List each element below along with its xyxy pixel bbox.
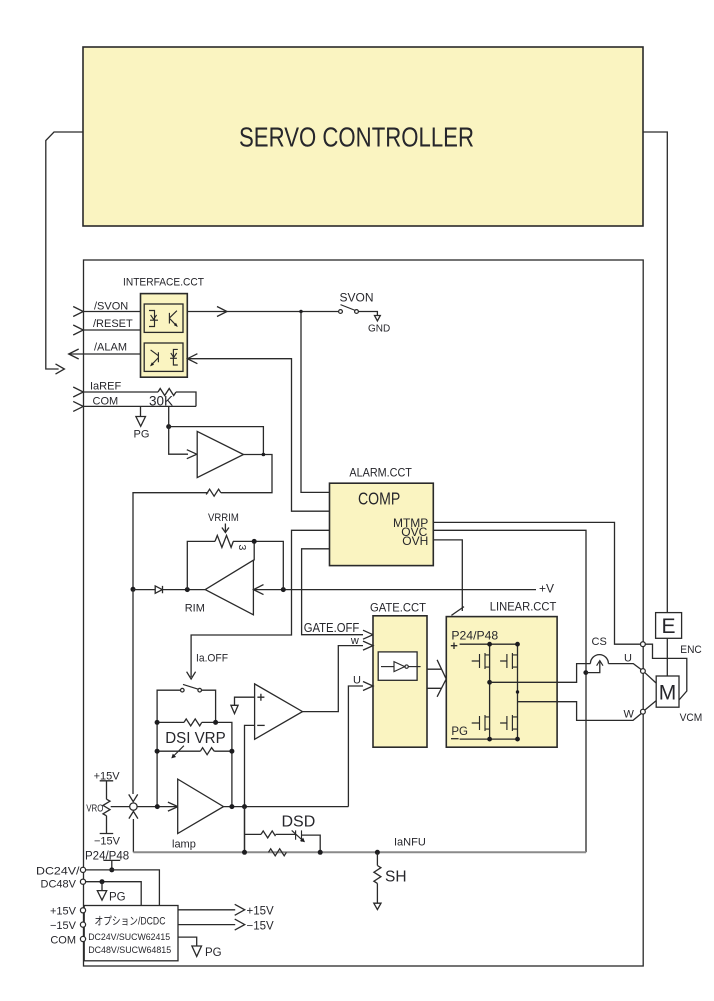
svg-text:DC48V/SUCW64815: DC48V/SUCW64815: [88, 945, 171, 956]
svg-text:P24/P48: P24/P48: [451, 629, 498, 643]
svg-text:3: 3: [236, 545, 248, 551]
svg-text:U: U: [624, 653, 632, 665]
svg-text:PG: PG: [451, 726, 468, 738]
svg-text:DSI VRP: DSI VRP: [165, 730, 226, 747]
svg-text:DC24V/SUCW62415: DC24V/SUCW62415: [88, 932, 170, 943]
svg-text:U: U: [353, 675, 361, 687]
svg-text:LINEAR.CCT: LINEAR.CCT: [490, 602, 557, 614]
svg-text:30K: 30K: [149, 394, 173, 409]
svg-text:IaNFU: IaNFU: [394, 837, 426, 849]
svg-text:DC48V: DC48V: [41, 879, 77, 891]
svg-text:Ia.OFF: Ia.OFF: [196, 653, 228, 665]
svg-text:VRRIM: VRRIM: [208, 512, 239, 524]
svg-text:SH: SH: [385, 869, 407, 886]
svg-text:COM: COM: [93, 396, 119, 408]
svg-text:VCM: VCM: [680, 712, 703, 724]
svg-text:−15V: −15V: [247, 920, 275, 932]
svg-text:PG: PG: [109, 892, 126, 904]
svg-text:W: W: [624, 709, 635, 721]
svg-text:+V: +V: [539, 582, 554, 596]
svg-text:−15V: −15V: [50, 920, 77, 932]
svg-text:ENC: ENC: [680, 644, 702, 656]
svg-text:COMP: COMP: [358, 489, 400, 509]
svg-text:PG: PG: [134, 429, 150, 441]
svg-text:GATE.OFF: GATE.OFF: [304, 620, 360, 635]
svg-text:OVH: OVH: [402, 534, 428, 548]
svg-text:M: M: [659, 682, 677, 705]
svg-text:+15V: +15V: [247, 906, 275, 918]
svg-text:/RESET: /RESET: [93, 318, 133, 330]
svg-text:GND: GND: [368, 324, 390, 335]
svg-text:IaREF: IaREF: [90, 381, 121, 393]
svg-text:オプション/DCDC: オプション/DCDC: [95, 915, 166, 928]
svg-text:−15V: −15V: [94, 836, 121, 848]
svg-text:PG: PG: [205, 947, 222, 959]
svg-text:/SVON: /SVON: [94, 301, 128, 313]
svg-text:VRO: VRO: [86, 803, 103, 815]
svg-text:CS: CS: [592, 636, 607, 648]
svg-text:RIM: RIM: [185, 603, 205, 615]
svg-text:DC24V/: DC24V/: [36, 866, 81, 878]
svg-text:lamp: lamp: [172, 839, 196, 851]
svg-text:/ALAM: /ALAM: [94, 342, 127, 354]
svg-text:DSD: DSD: [282, 814, 316, 831]
svg-text:SVON: SVON: [340, 291, 374, 305]
svg-text:ALARM.CCT: ALARM.CCT: [349, 468, 412, 480]
svg-text:INTERFACE.CCT: INTERFACE.CCT: [123, 277, 204, 289]
svg-text:E: E: [661, 615, 675, 638]
svg-text:SERVO CONTROLLER: SERVO CONTROLLER: [239, 121, 474, 152]
svg-text:COM: COM: [50, 935, 76, 947]
svg-text:+15V: +15V: [50, 906, 77, 918]
svg-text:GATE.CCT: GATE.CCT: [370, 603, 426, 615]
